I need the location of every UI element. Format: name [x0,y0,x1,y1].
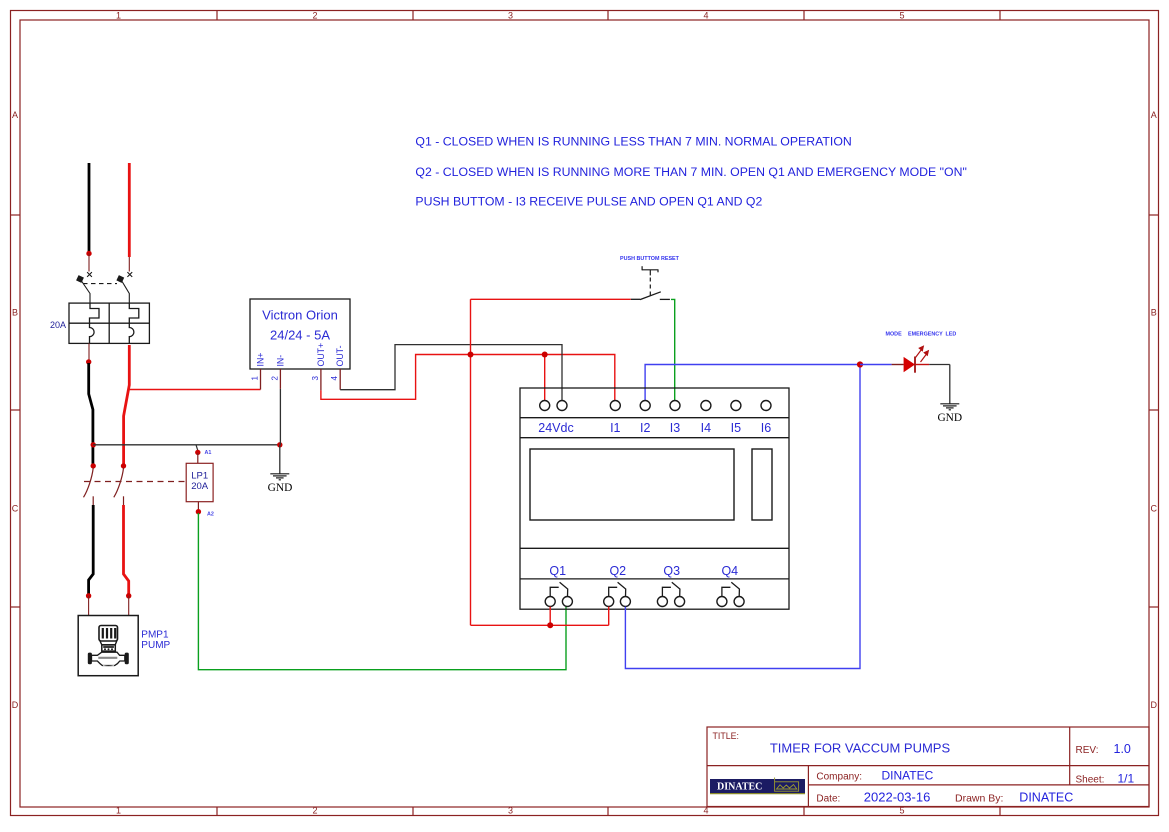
wire green push button to I3 [671,299,675,400]
svg-text:C: C [1151,504,1158,514]
wire green A2 to Q1 output [198,513,566,670]
node A2 dot [196,509,201,514]
wire N thick to pump [124,505,129,594]
wire red to push button [471,298,631,300]
svg-text:PMP1: PMP1 [141,630,169,641]
svg-text:3: 3 [311,376,320,381]
svg-text:I1: I1 [610,421,620,435]
logo DINATEC [710,779,805,794]
svg-text:I5: I5 [731,421,741,435]
svg-text:B: B [12,308,18,318]
svg-text:Drawn By:: Drawn By: [955,793,1003,805]
svg-text:1/1: 1/1 [1118,772,1135,786]
svg-text:I4: I4 [701,421,711,435]
svg-text:MODE: MODE [886,332,903,338]
relay coil LP1 20A [186,463,213,501]
circuit breaker QF1 20A (2-pole) [69,272,149,343]
svg-text:1.0: 1.0 [1114,742,1131,756]
svg-text:3: 3 [508,11,513,21]
svg-text:A1: A1 [205,450,212,456]
node junction dot L1/black bus [91,442,96,447]
U2 output contact Q3 [657,582,684,606]
U1 pin stubs [261,369,341,390]
svg-text:5: 5 [899,11,904,21]
wire L1 thin stub to breaker [88,254,90,272]
svg-text:LP1: LP1 [191,471,208,482]
svg-text:TITLE:: TITLE: [713,731,739,741]
wire blue I2 to LED bus [645,365,860,401]
node junction dot on L1 [86,251,91,256]
svg-text:2: 2 [312,806,317,816]
wire black bus horizontal [93,444,280,446]
svg-text:OUT-: OUT- [335,345,345,366]
wire L1 below breaker (thin) [88,343,90,360]
node A1 dot [195,450,200,455]
svg-text:Q2 - CLOSED WHEN IS RUNNING MO: Q2 - CLOSED WHEN IS RUNNING MORE THAN 7 … [415,165,966,179]
svg-text:1: 1 [116,11,121,21]
wire blue Q2 to LED [625,365,860,669]
ground GND2 [940,404,959,410]
U2 LCD display [530,449,734,520]
svg-text:Company:: Company: [816,772,862,783]
svg-text:DINATEC: DINATEC [882,769,934,783]
svg-text:B: B [1151,308,1157,318]
svg-text:20A: 20A [191,481,209,492]
svg-text:2: 2 [270,376,279,381]
U2 output contact Q1 [545,582,572,606]
svg-text:2: 2 [312,11,317,21]
PLC U2 logic relay [520,388,789,609]
svg-text:LED: LED [946,332,957,338]
svg-text:4: 4 [330,376,339,381]
wire red branch to 24Vdc+ [544,355,546,401]
wire N phase (thick red, top) [128,163,131,257]
svg-text:IN-: IN- [275,355,285,367]
svg-text:PUSH BUTTOM RESET: PUSH BUTTOM RESET [620,256,680,262]
U1 pin numbers [251,376,340,381]
svg-text:D: D [12,700,19,710]
wire L1 thick to pump [89,505,94,594]
LED emission arrows [916,346,929,362]
wire to GND1 [279,445,281,474]
wire L1 thick to contact [89,363,93,464]
svg-text:4: 4 [703,11,708,21]
svg-text:PUMP: PUMP [141,640,170,651]
wire LED to GND2 [949,365,951,404]
svg-text:I3: I3 [670,421,680,435]
svg-text:3: 3 [508,806,513,816]
svg-text:DINATEC: DINATEC [1019,791,1073,805]
svg-text:TIMER FOR VACCUM PUMPS: TIMER FOR VACCUM PUMPS [770,741,951,756]
svg-text:D: D [1151,700,1158,710]
dashed mechanical link to LP1 [84,481,186,483]
svg-text:A2: A2 [207,512,214,518]
U2 side slot [752,449,772,520]
svg-text:24/24 - 5A: 24/24 - 5A [270,328,330,343]
ground GND1 [270,474,289,480]
svg-text:DINATEC: DINATEC [717,781,762,792]
svg-text:Q2: Q2 [609,564,626,578]
svg-text:I6: I6 [761,421,771,435]
U2 output contact Q2 [604,582,631,606]
svg-text:1: 1 [116,806,121,816]
wire N below breaker (thick red) [124,345,130,464]
svg-text:PUSH BUTTOM - I3 RECEIVE PULSE: PUSH BUTTOM - I3 RECEIVE PULSE AND OPEN … [415,194,762,208]
svg-text:IN+: IN+ [256,353,266,367]
U2 output labels [549,564,738,578]
svg-text:GND: GND [268,482,293,494]
DC converter U1 Victron Orion [250,299,350,369]
svg-text:REV:: REV: [1076,745,1099,756]
svg-text:2022-03-16: 2022-03-16 [864,790,931,805]
node junction dot GND bus [277,442,282,447]
svg-text:GND: GND [937,412,962,424]
U2 output contact Q4 [717,582,744,606]
svg-text:Q4: Q4 [721,564,738,578]
svg-text:A: A [1151,110,1157,120]
motor pump PMP1 [78,616,138,676]
wire U1 pin3 OUT+ red [321,355,615,401]
wire U1 pin2 to gnd bus [279,389,281,445]
svg-text:24Vdc: 24Vdc [538,421,573,435]
svg-text:Sheet:: Sheet: [1076,775,1105,786]
svg-text:A: A [12,110,18,120]
svg-text:I2: I2 [640,421,650,435]
wire N thin stub to breaker [128,257,130,272]
svg-text:C: C [12,504,19,514]
wire red to Victron pin1 [128,389,261,391]
node junction dot [86,359,91,364]
svg-text:Q1: Q1 [549,564,566,578]
title block [707,727,1149,807]
wire red Q1/Q2 commons [549,607,551,626]
svg-text:OUT+: OUT+ [316,343,326,367]
svg-text:EMERGENCY: EMERGENCY [908,332,943,338]
wire red vertical emergency bus [470,299,472,625]
U2 input terminals [540,401,771,411]
svg-text:20A: 20A [50,320,66,330]
svg-text:Date:: Date: [816,794,840,805]
svg-text:1: 1 [251,376,260,381]
wire L1 phase (thick black, top) [88,163,91,252]
wire A2 stub [197,502,199,510]
wire A1 stub [197,453,199,463]
svg-text:Q3: Q3 [663,564,680,578]
U1 pin labels [256,343,346,367]
jog to A1 pin [196,445,198,451]
wire U1 pin4 OUT- black [340,345,562,401]
U2 input labels [538,421,771,435]
contactor contact K1b (red pole) [121,463,126,468]
svg-text:Victron Orion: Victron Orion [262,308,338,323]
svg-text:Q1 - CLOSED WHEN IS RUNNING LE: Q1 - CLOSED WHEN IS RUNNING LESS THAN 7 … [415,135,851,149]
contactor contact K1a (black pole) [91,463,96,468]
